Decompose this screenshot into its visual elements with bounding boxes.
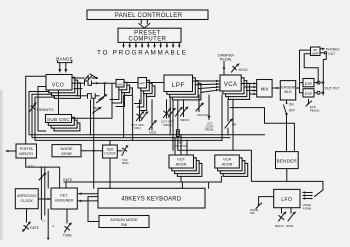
wire: gate line to envelopes (64, 176, 221, 188)
svg-text:PRESET: PRESET (134, 30, 161, 36)
wire: left wrap bus line 1 (bottom bus y134.8) (29, 92, 265, 135)
wire: panel controller to preset computer (hollow arrow) (139, 20, 150, 28)
wire: pulse width row (76, 94, 99, 99)
wire: keyboard top stub (181, 182, 183, 188)
wire: waveform switch down to bus (90, 100, 92, 135)
wire: arpeggio to key assigner arrow (38, 198, 51, 201)
switch: waveform select lever (90, 74, 97, 78)
svg-text:49KEYS KEYBOARD: 49KEYS KEYBOARD (121, 196, 181, 202)
svg-text:F V: F V (29, 165, 35, 169)
switch EXP pedal (306, 100, 312, 107)
label VCF CONT PEDAL (205, 121, 215, 131)
svg-text:CLOCK: CLOCK (21, 199, 34, 203)
wire: headphone amp input right (300, 50, 311, 81)
label OUT PUT (322, 81, 340, 94)
wire: noise/S&H vertical (93, 99, 95, 188)
LFO box (274, 189, 300, 207)
svg-text:TO PROGRAMMABLE: TO PROGRAMMABLE (97, 49, 188, 56)
wire: HPF to LPF (147, 82, 165, 84)
assign mode SW box (99, 216, 149, 228)
label WAVE FORM (303, 203, 312, 210)
switch ensemble on/off (284, 100, 288, 115)
keyboard box (98, 188, 205, 208)
switch: LFO waveform select (302, 190, 323, 200)
label MODE SW (250, 208, 259, 215)
key assigner box (51, 188, 77, 209)
svg-text:HPF: HPF (139, 82, 145, 86)
wire: VCO third output stub (74, 88, 82, 90)
wire: VCA stack down to bus (221, 95, 223, 140)
svg-text:CLOCK: CLOCK (104, 152, 116, 156)
wire: VCO sawtooth output row (72, 76, 98, 80)
switch: cut off freq pair (169, 108, 177, 117)
portamento box (16, 144, 37, 158)
VCA ADSR box (stack) (215, 155, 248, 176)
label KEY FOLLOW (174, 141, 187, 148)
svg-text:PEDAL: PEDAL (220, 57, 232, 61)
svg-text:RESO: RESO (181, 118, 190, 122)
label CUT OFF FREQ (161, 120, 174, 127)
preset computer box (118, 28, 181, 42)
VCA box (stack) (220, 75, 250, 99)
label DAMPER PEDAL (218, 54, 235, 62)
svg-text:MENTO: MENTO (19, 151, 33, 156)
svg-text:MOD: MOD (122, 161, 129, 165)
wire: VCF ADSR top stubs (175, 135, 187, 155)
switch: arpeggio rate (22, 209, 31, 232)
wire: VCF cont pedal (208, 95, 211, 120)
switch: cut off freq (env) (164, 100, 172, 118)
wire: assign mode to keyboard line (88, 197, 99, 222)
wires: ensemble to EXP amps (296, 83, 303, 93)
wire: VCO to sub osc (58, 90, 60, 115)
svg-text:PANEL CONTROLLER: PANEL CONTROLLER (115, 12, 183, 19)
label EXP PEDAL (310, 105, 320, 112)
VCO (4-voice stack) (46, 75, 80, 99)
switch: resonance (181, 100, 189, 117)
S&H clock box (103, 145, 118, 158)
svg-text:GENE: GENE (61, 151, 72, 156)
svg-text:FORM: FORM (303, 206, 312, 210)
svg-text:SW: SW (250, 211, 255, 215)
wires: mixer stack layer feeds (110, 91, 125, 107)
svg-text:(−): (−) (42, 219, 45, 223)
wire: mixer stack output down to bus (123, 95, 125, 137)
wires: keyboard to key assigner arrows (78, 192, 98, 202)
svg-text:GATE: GATE (63, 178, 73, 182)
svg-text:RATE: RATE (286, 224, 293, 228)
LPF box (stack) (164, 75, 201, 100)
wires: ten arrows from preset computer down (122, 42, 180, 48)
svg-text:PHONES: PHONES (326, 47, 339, 51)
mixer box (stack) (116, 80, 132, 96)
svg-text:ARPEGGIO: ARPEGGIO (17, 194, 36, 198)
svg-text:AMP: AMP (312, 51, 319, 55)
arpeggio clock box (15, 189, 38, 209)
wire: bender bottom bus (178, 150, 323, 190)
switch: LFO rate (288, 208, 296, 221)
key follow coil (176, 100, 179, 150)
svg-text:VCA: VCA (224, 82, 238, 88)
scan gutter shading left edge (0, 90, 3, 240)
wire: ensemble switch line down to bender (286, 114, 288, 152)
wire: step path to bender input (230, 108, 294, 152)
wire: MIX to ensemble (272, 87, 280, 90)
MIX box (257, 80, 272, 98)
wire: portamento down to key CV line (26, 158, 60, 188)
wire: left wrap bus line 2 (bottom bus y137.6) (32, 94, 230, 137)
switch: VCA LM mod (225, 99, 237, 134)
wire: left wrap bus line 3 (bottom bus y140.4) (35, 97, 222, 140)
HPF box (stack) (138, 78, 155, 97)
svg-text:VCO: VCO (52, 82, 64, 88)
wire: mixer to HPF (124, 82, 138, 84)
svg-text:MIX: MIX (117, 82, 122, 86)
panel controller box (87, 10, 208, 20)
output jack 2 (314, 91, 320, 94)
svg-text:EXP: EXP (305, 82, 313, 86)
wire: key CV lines up from key assigner (41, 167, 48, 219)
svg-text:ADSR: ADSR (176, 161, 187, 166)
wire: headphone amp input left (304, 54, 318, 83)
svg-text:RANGE: RANGE (56, 56, 73, 61)
wire: VCO square output row to mixer (72, 81, 116, 85)
svg-text:SUB OSC: SUB OSC (47, 117, 71, 122)
wire: HPF stack output down to bus (132, 96, 134, 140)
EXP amp 2 (303, 89, 314, 97)
switch: orginal (196, 95, 204, 112)
wire: range bracket into VCO (58, 61, 72, 73)
svg-text:OFF: OFF (289, 109, 295, 113)
svg-text:SW: SW (121, 222, 128, 227)
switch: reso pair (176, 107, 184, 116)
switch VIBRATO (29, 102, 37, 113)
svg-text:ADSR: ADSR (222, 161, 233, 166)
wires: VCA to MIX (4 voice lines) (241, 82, 257, 95)
HP amp box (311, 47, 321, 56)
svg-text:PEDAL: PEDAL (310, 109, 320, 113)
switch: tune (65, 209, 73, 232)
wires: LPF to VCA (4 voice lines) (193, 80, 220, 93)
output jack 1 (314, 81, 320, 84)
svg-text:LFO: LFO (281, 197, 292, 203)
wire: left wrap bus line 4 into sub osc (38, 87, 46, 132)
svg-text:OUT: OUT (328, 52, 335, 56)
wire: arpeggio mode lines below (42, 209, 55, 240)
svg-text:BLE: BLE (284, 89, 292, 94)
noise generator box (52, 145, 81, 157)
svg-text:FRQ: FRQ (134, 126, 141, 130)
wire: phones out jack to output bus (323, 54, 326, 95)
switch: mod (149, 100, 157, 130)
switch: LFO mode (256, 197, 274, 209)
label VCF MOD (122, 158, 129, 165)
svg-text:KEY: KEY (60, 194, 68, 198)
svg-text:PEDAL: PEDAL (205, 128, 215, 132)
svg-text:ON: ON (289, 103, 294, 107)
ensemble box (280, 81, 295, 100)
svg-text:MAN: MAN (94, 106, 101, 110)
wire: portamento CV up to VCO left (26, 76, 46, 144)
wire: sub osc to mixer (72, 84, 113, 119)
svg-text:HOLD: HOLD (239, 68, 249, 72)
svg-text:VIBRATO: VIBRATO (36, 107, 53, 112)
svg-text:FREQ: FREQ (163, 123, 172, 127)
bender box (276, 152, 299, 169)
svg-text:EXP: EXP (305, 92, 313, 96)
svg-text:LPF: LPF (172, 82, 185, 89)
switch: PWM man/auto (93, 98, 104, 113)
svg-text:RATE: RATE (30, 226, 40, 230)
wire: damper pedal arrow into VCA (223, 62, 226, 76)
wire: S&H top stub (109, 140, 111, 145)
label PHONES OUT (320, 47, 339, 55)
VCF ADSR box (stack) (169, 155, 202, 176)
svg-text:DELAY: DELAY (275, 224, 284, 228)
switch HOLD (232, 63, 240, 72)
switch: portamento on/off (39, 173, 47, 180)
switch: LFO delay (279, 208, 287, 221)
wires: HPF stack layer feeds (135, 91, 147, 111)
wire: arrow out of portamento left (5, 150, 16, 153)
svg-text:COMPUTER: COMPUTER (129, 37, 167, 43)
label CUT OFF FRQ (131, 123, 144, 130)
svg-text:BENDER: BENDER (277, 158, 298, 163)
svg-text:OUT PUT: OUT PUT (325, 86, 340, 90)
EXP amp 1 (303, 79, 314, 87)
switch: cutoff frq mod (137, 100, 145, 121)
wire: VCA stack down to key follow line (232, 99, 234, 150)
wires: LPF stack layer stubs (170, 94, 173, 150)
wire: S&H bottom stub (109, 158, 111, 188)
svg-text:+1: +1 (52, 224, 56, 228)
wire: noise to S&H clock (81, 150, 103, 152)
sub osc (stack) (46, 115, 80, 131)
svg-text:TUNE: TUNE (63, 234, 73, 238)
switch: VCF mod from S&H (117, 145, 128, 155)
switch: cutoff frq mod pair (141, 111, 149, 120)
svg-text:MIX: MIX (261, 87, 269, 92)
svg-text:MOD: MOD (149, 130, 157, 134)
svg-text:ASSIGNER: ASSIGNER (55, 198, 74, 202)
label ON OFF (289, 103, 295, 113)
switch: PWM select (99, 84, 107, 99)
